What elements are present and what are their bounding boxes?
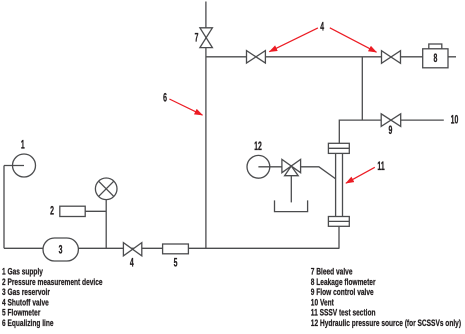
svg-text:12 Hydraulic pressure source (: 12 Hydraulic pressure source (for SCSSVs… bbox=[311, 318, 461, 328]
drain container symbol bbox=[275, 200, 308, 211]
wire: flow control line with corner down to test section bbox=[339, 120, 444, 143]
svg-text:7: 7 bbox=[195, 32, 199, 45]
svg-text:11: 11 bbox=[377, 160, 384, 173]
wire: three-way valve to test section control port bbox=[301, 167, 336, 179]
pressure measurement device box 2 bbox=[60, 206, 85, 216]
svg-text:10: 10 bbox=[451, 114, 459, 127]
svg-text:12: 12 bbox=[254, 140, 262, 153]
red arrow to top-left shutoff valve bbox=[269, 28, 318, 52]
wire: drop from pressure gauge to main line bbox=[105, 189, 107, 249]
wire: stub into gas supply circle bbox=[4, 165, 24, 167]
SSSV test section top flange bbox=[328, 143, 349, 153]
red arrow to SSSV test section bbox=[346, 167, 375, 183]
svg-text:8 Leakage flowmeter: 8 Leakage flowmeter bbox=[311, 277, 376, 287]
wire: from bottom flange down and to main line bbox=[338, 226, 340, 248]
wire: vertical from top line down to flow-control line bbox=[361, 57, 363, 120]
svg-text:5: 5 bbox=[174, 257, 178, 270]
svg-text:9: 9 bbox=[388, 124, 392, 137]
svg-text:3 Gas reservoir: 3 Gas reservoir bbox=[2, 287, 51, 297]
wire: from box 2 to gauge drop line bbox=[85, 210, 106, 212]
svg-text:2: 2 bbox=[50, 205, 54, 218]
flowmeter 5 box bbox=[163, 244, 189, 254]
shutoff valve top-left (bowtie) bbox=[247, 51, 266, 64]
svg-text:6 Equalizing line: 6 Equalizing line bbox=[2, 318, 54, 328]
svg-text:2 Pressure measurement device: 2 Pressure measurement device bbox=[2, 277, 103, 287]
svg-text:4: 4 bbox=[320, 21, 324, 34]
SSSV test section bottom flange bbox=[328, 217, 349, 227]
wire: three-way valve down to drain bbox=[290, 176, 292, 203]
wire: from circle 12 to three-way valve bbox=[258, 166, 282, 168]
svg-text:3: 3 bbox=[59, 244, 63, 257]
hydraulic pressure source circle 12 bbox=[247, 155, 270, 178]
wire: top horizontal line to leakage flowmeter bbox=[206, 56, 456, 58]
leakage flowmeter 8 box with cap bbox=[429, 44, 442, 49]
wire: equalizing line vertical (line 6) bbox=[205, 2, 207, 249]
svg-text:5 Flowmeter: 5 Flowmeter bbox=[2, 307, 41, 317]
svg-text:4: 4 bbox=[130, 257, 134, 270]
svg-text:1 Gas supply: 1 Gas supply bbox=[2, 266, 43, 276]
svg-text:8: 8 bbox=[433, 52, 437, 65]
svg-text:6: 6 bbox=[163, 92, 167, 105]
svg-text:11 SSSV test section: 11 SSSV test section bbox=[311, 307, 376, 317]
flow control valve 9 (bowtie) bbox=[381, 114, 401, 127]
three-way valve (bowtie with bottom port) bbox=[282, 159, 301, 172]
red arrow to top-right shutoff valve bbox=[330, 28, 377, 52]
svg-text:1: 1 bbox=[21, 139, 25, 152]
shutoff valve 4 (bowtie) bbox=[123, 243, 141, 256]
gas reservoir 3 (stadium) bbox=[43, 238, 78, 261]
SSSV test section pipe walls bbox=[336, 153, 343, 216]
svg-text:10 Vent: 10 Vent bbox=[311, 297, 334, 307]
pressure gauge circle (crossed) bbox=[95, 178, 117, 200]
shutoff valve top-right (bowtie) bbox=[382, 51, 401, 64]
svg-text:9 Flow control valve: 9 Flow control valve bbox=[311, 287, 374, 297]
bleed valve 7 (vertical bowtie) bbox=[200, 28, 213, 48]
gas supply circle 1 bbox=[13, 154, 36, 177]
svg-text:7 Bleed valve: 7 Bleed valve bbox=[311, 266, 353, 276]
red arrow to equalizing line 6 bbox=[169, 28, 376, 183]
svg-text:4 Shutoff valve: 4 Shutoff valve bbox=[2, 297, 49, 307]
wire: left vertical from gas supply down to main line bbox=[3, 166, 5, 249]
wire: main bottom line bbox=[4, 247, 339, 249]
